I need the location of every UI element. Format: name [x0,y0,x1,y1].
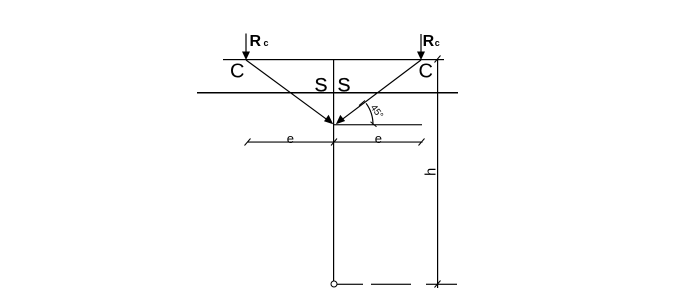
wire right diagonal strut [339,60,421,122]
wire left diagonal strut [246,60,330,122]
arrowhead right load R_c [417,52,425,61]
svg-text:e: e [287,131,294,146]
tick e dimension left end [245,139,251,146]
svg-text:e: e [375,131,382,146]
svg-text:R: R [423,33,435,50]
arrowhead right strut at vertex [336,115,345,124]
svg-text:S: S [315,74,328,96]
arc 45 degree angle dimension [366,103,373,125]
wire bottom dashed baseline segment 2 [371,284,411,285]
svg-text:h: h [424,168,440,176]
wire vertex horizontal reference line [334,124,422,125]
tick angle arc upper end [359,101,365,106]
svg-text:c: c [264,38,269,48]
tick h dimension bottom end [435,281,441,288]
tick e dimension middle [331,139,337,146]
wire center vertical axis [333,60,334,281]
tick e dimension right end [419,139,425,146]
tick angle arc lower end [371,122,377,127]
svg-text:C: C [230,61,244,83]
wire left load arrow shaft [245,34,247,53]
arrowhead left strut at vertex [324,115,333,124]
wire e dimension line [248,142,423,143]
svg-text:c: c [435,38,440,48]
wire bottom dashed baseline segment 1 [337,284,363,285]
svg-text:C: C [419,61,433,83]
wire right dimension line h vertical [437,59,438,288]
node bottom pivot circle [331,281,337,287]
wire bottom dashed baseline segment 3 [426,284,457,285]
wire right load arrow shaft [420,34,422,52]
wire top bearing line [223,59,444,60]
svg-text:R: R [250,33,262,50]
svg-text:S: S [338,74,351,96]
tick h dimension top end [435,56,441,63]
arrowhead left load R_c [242,52,250,61]
wire lower bearing line [197,92,458,94]
